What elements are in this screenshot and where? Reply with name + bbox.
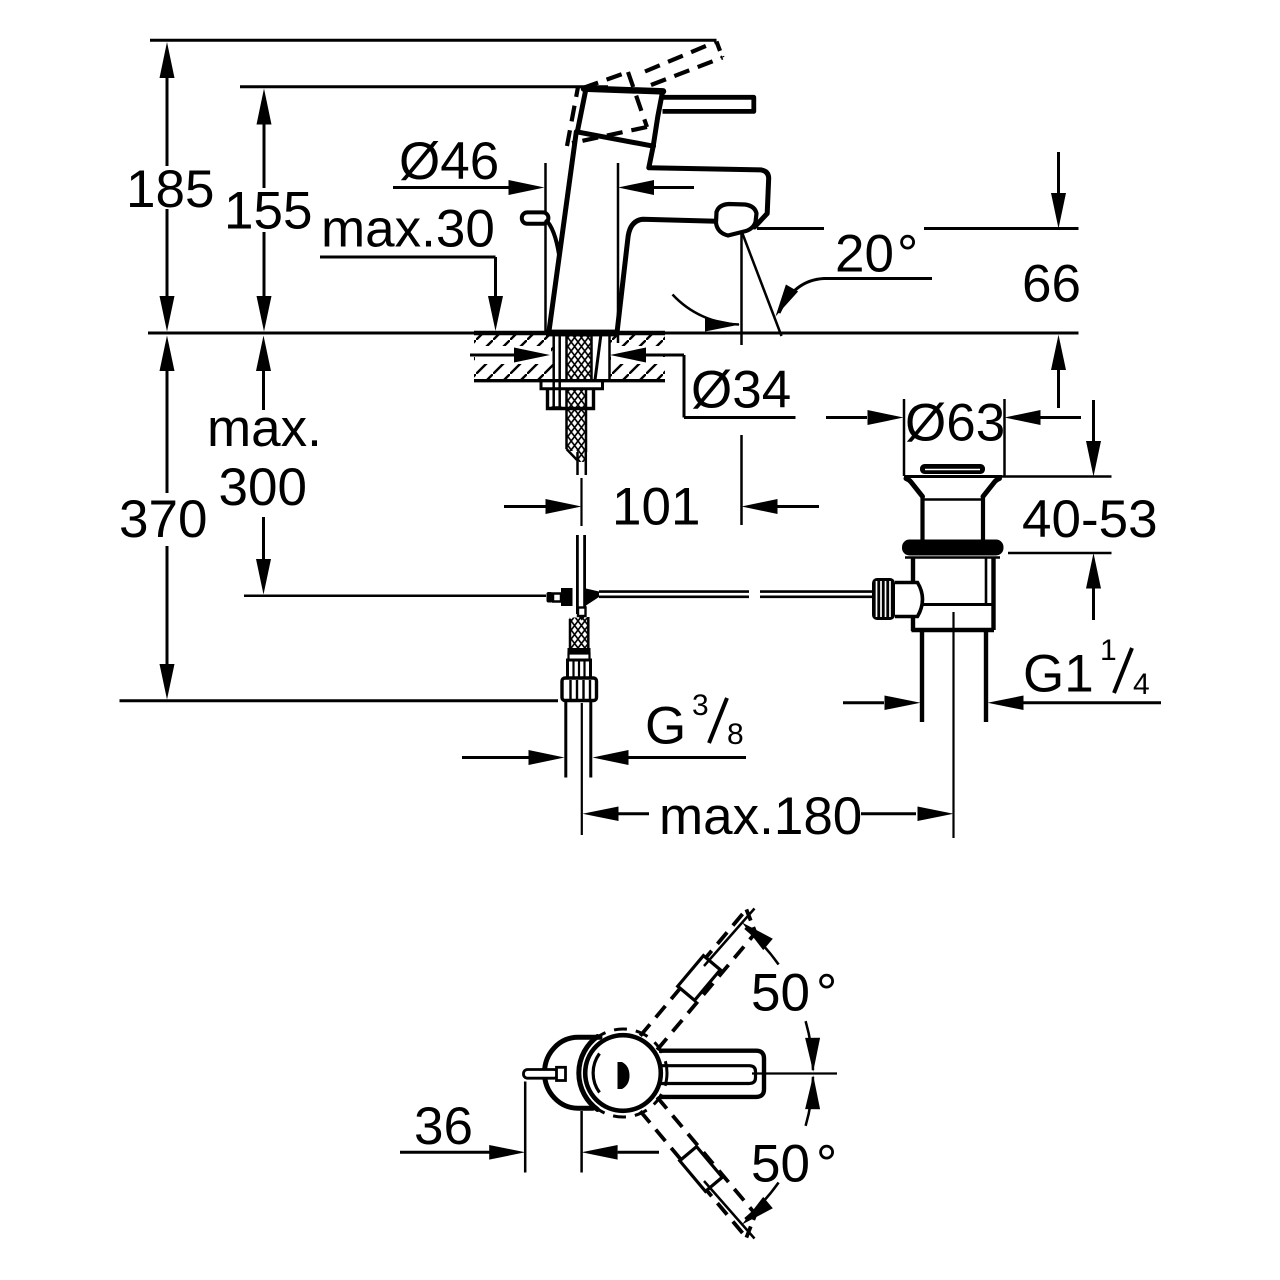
185 down arrow [160,296,175,332]
dashed lever upper line [645,42,717,72]
base gasket band [546,330,618,337]
knob connector cylinder [895,583,923,617]
Ø63 left arrowhead [1005,410,1041,425]
svg-text:max.: max. [207,399,322,458]
185 top reference line [150,39,717,42]
svg-text:G1: G1 [1023,645,1094,704]
tailpipe [920,630,924,722]
G3/8 left tail [462,756,529,759]
locknut [548,389,594,409]
pull rod tube in deck [552,332,555,407]
Ø63 right arrowhead [868,410,904,425]
66 lower stem [1057,368,1060,408]
svg-text:max.30: max.30 [321,200,495,259]
Ø63 left tail [826,416,867,419]
svg-text:8: 8 [727,718,744,751]
40-53 top reference extension [1002,475,1112,478]
plug neck sides [920,497,924,541]
36 left tail [400,1151,490,1154]
lower arc arrowhead at centerline [805,1075,820,1109]
ribbed nut [568,660,591,678]
clevis right wedge [586,589,599,606]
halo right [611,346,663,364]
40-53 bottom reference line [1008,552,1112,555]
svg-text:300: 300 [219,458,307,517]
upper dashed lever edge 1 [640,909,746,1035]
svg-text:Ø34: Ø34 [691,361,791,420]
deck hatch left [474,335,553,379]
lower arc arrowhead at lever [742,1197,773,1225]
upper dashed lever edge 2 [657,933,755,1050]
aerator [716,204,757,236]
handle top edge [584,89,663,92]
handle bottom edge [577,132,653,146]
Ø46 right tail [654,186,694,189]
lower lever axis thin line [704,1181,755,1239]
G1 right arrowhead at pipe left [885,696,921,711]
arc arrowhead at vertical line [705,318,740,332]
upper lever axis thin line [704,909,755,967]
Ø34 right tail [646,354,684,357]
clevis block [561,588,573,606]
40-53 up arrow [1086,553,1101,589]
spout underside and inner edge [617,219,716,331]
lower dashed lever edge 2 [657,1097,755,1214]
36 left witness [524,1082,527,1173]
155 dim line upper segment [263,121,266,188]
Ø46 right witness [617,163,620,343]
body left edge [549,132,576,331]
inner right line [985,558,988,603]
svg-text:Ø63: Ø63 [905,394,1005,453]
supply tube [564,701,567,778]
lower lever sleeve [680,1147,723,1192]
svg-text:20: 20 [835,225,894,284]
Ø46 left tail [393,186,510,189]
outlet level line left segment [757,227,824,230]
Ø63 right tail [1041,416,1082,419]
370 dim line upper segment [166,369,169,493]
svg-text:185: 185 [126,160,214,219]
plug knob disc [920,464,985,474]
spout axis witness below deck [740,435,743,525]
lower dashed lever cap [746,1214,755,1237]
66 down arrow [1051,193,1066,229]
36 right arrowhead [489,1145,525,1160]
plug flange top line [904,475,1002,478]
max180 left arrowhead at hose axis [583,807,619,822]
36 right witness [580,1111,583,1173]
rod tip below clevis [578,608,586,617]
36 right tail [618,1151,659,1154]
handle left edge [577,89,586,132]
svg-text:370: 370 [119,490,207,549]
deck slab top thick [474,331,665,336]
svg-text:4: 4 [1133,668,1150,701]
370 up arrow at deck [160,336,175,372]
clevis white box [553,594,561,602]
370 dim line lower segment [166,546,169,666]
G3/8 nut [562,678,597,701]
370 bottom reference line [120,699,559,702]
pull rod knob [522,212,549,223]
hose narrow crosshatch [577,449,586,462]
shank right slant line [595,334,601,380]
max300 dim line lower segment [262,517,265,560]
40-53 upper stem [1092,400,1095,443]
seal ring [902,540,1004,556]
max30 underline [320,256,496,259]
horizontal rod left segment [599,590,749,593]
101 right tail [778,505,820,508]
svg-text:3: 3 [692,689,709,722]
svg-text:max.180: max.180 [659,787,862,846]
vertical reference line from outlet [740,231,743,345]
lever top view outer [659,1051,764,1097]
deck line [148,332,1079,335]
dashed swivel circle [579,1029,667,1117]
Ø34 left arrowhead [610,348,646,363]
upper arc arrowhead at centerline [805,1038,820,1072]
svg-text:°: ° [816,964,837,1023]
handle base circle [585,1035,661,1111]
plug neck joint line [923,498,983,501]
washer under deck [541,381,603,389]
upper arc arrowhead at lever [742,923,773,951]
155 dim line lower segment [263,232,266,298]
svg-text:36: 36 [414,1097,473,1156]
max180 right arrowhead at waste axis [918,807,954,822]
svg-text:40-53: 40-53 [1022,490,1158,549]
horizontal rod right segment [760,590,873,593]
body stadium outline [545,1037,601,1108]
G1 1/4 left tail [843,701,884,704]
vertical pull rod [576,535,579,614]
lever [662,97,754,111]
outlet level line right segment [924,227,1079,230]
36 left arrowhead [582,1145,618,1160]
Ø46 left witness [544,163,547,331]
Ø63 left witness [903,399,906,476]
185 up arrow [160,42,175,78]
lever top view inner [661,1066,756,1084]
max300 dim line upper segment [262,369,265,410]
Ø34 right arrowhead [514,348,550,363]
max180 left tail [619,812,650,815]
body right edge and spout top [649,146,769,227]
G3/8 right arrowhead [529,750,565,765]
101 right arrowhead at hose axis [546,499,582,514]
max30 down arrow [488,296,503,331]
upper arc inner segment [806,1021,813,1070]
flange sides [906,479,923,497]
collar [568,648,591,654]
66 up arrow [1051,335,1066,370]
G1 right tail [1024,701,1162,704]
Ø34 left tail [470,354,514,357]
Ø63 right witness [1003,399,1006,476]
max300 up arrow at deck [256,336,271,372]
G3/8 left arrowhead [593,750,629,765]
svg-text:Ø46: Ø46 [399,132,499,191]
Ø46 right arrowhead [509,180,545,195]
max300 bottom reference line [244,595,546,598]
svg-text:101: 101 [612,478,700,537]
185 dim line upper segment [166,74,169,166]
upper lever sleeve [678,956,721,1001]
lever axis centerline [752,1072,837,1074]
svg-text:50: 50 [751,964,810,1023]
angle arc under body [673,295,740,325]
lower arc outer segment [745,1183,779,1220]
155 top reference line [240,85,608,88]
leader arrowhead at slant line [776,285,799,317]
handle right edge [653,92,662,146]
max300 down arrow [256,559,271,595]
66 upper stem [1057,152,1060,194]
body right cap arc [579,1037,598,1110]
svg-text:50: 50 [751,1135,810,1194]
G1 left arrowhead at pipe right [988,696,1024,711]
Ø46 left arrowhead [618,180,654,195]
Ø34 underline [684,416,796,419]
halo left [475,346,551,364]
40-53 lower stem [1092,587,1095,621]
upper dashed lever cap [746,909,755,932]
lower dashed lever edge 1 [640,1111,746,1237]
pull rod curve [546,220,560,259]
dashed lever end cap [717,42,723,58]
svg-text:1: 1 [1100,634,1117,667]
svg-text:66: 66 [1022,255,1081,314]
svg-text:°: ° [816,1135,837,1194]
max30 stem [494,257,497,298]
body bottom flange [912,603,994,606]
40-53 down arrow [1086,441,1101,477]
knurled knob [872,578,895,620]
101 left arrowhead at spout axis [742,499,778,514]
slanted spray line [742,231,782,336]
hose end tube [576,452,579,475]
dashed lever lower line [651,58,723,86]
upper arc outer segment [745,928,779,965]
pull rod top view [524,1070,559,1079]
white band [569,654,590,661]
dashed handle outline (rotated) [567,42,723,147]
lower arc inner segment [806,1077,813,1126]
G3/8 right tail [629,756,747,759]
deck slab bottom line [474,379,665,382]
waste centerline [952,612,954,838]
deck hatch right [610,335,665,379]
hose taper [565,451,578,463]
braided hose lower [570,618,589,649]
155 down arrow [257,296,272,332]
clevis left cap [547,592,553,603]
svg-text:155: 155 [224,182,312,241]
max180 right tail [861,812,916,815]
hole right edge [608,333,611,380]
hose axis centerline [580,478,582,526]
155 up arrow [257,89,272,125]
under seal line [905,556,1000,559]
waste body sides [911,558,915,584]
pull rod end block [557,1067,566,1080]
101 left tail [504,505,547,508]
Ø34 leader drop [683,355,686,418]
370 down arrow [160,664,175,700]
185 dim line lower segment [166,209,169,298]
svg-text:°: ° [897,225,918,284]
tube centerline [581,703,583,835]
inner cartridge arc [593,1054,599,1093]
20deg leader [779,279,932,314]
shank crosshatch [566,333,592,380]
svg-text:G: G [645,697,686,756]
keyhole mark [618,1062,630,1089]
braided hose upper [567,389,587,451]
